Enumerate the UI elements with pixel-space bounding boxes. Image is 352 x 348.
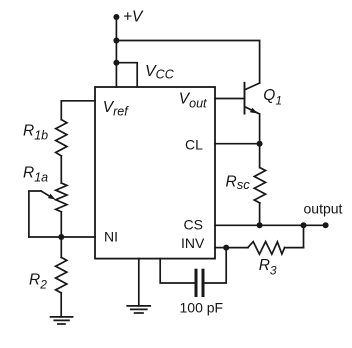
svg-text:CS: CS <box>184 217 203 233</box>
resistor R1a (potentiometer) <box>23 165 67 212</box>
wire Vout pin to Q1 base <box>215 98 245 100</box>
node CL/emitter junction <box>257 141 263 147</box>
resistor Rsc <box>226 144 266 226</box>
wire NI pin <box>29 236 95 238</box>
ground below IC <box>127 306 150 313</box>
wire R1a wiper arm <box>29 191 56 237</box>
wire Vref pin to divider <box>61 101 95 120</box>
svg-text:100 pF: 100 pF <box>180 300 224 316</box>
node R3 top junction <box>301 222 307 228</box>
wire CL pin <box>215 143 260 145</box>
svg-text:CL: CL <box>185 136 203 152</box>
node INV junction <box>223 245 229 251</box>
wire R3 right leg up to CS line <box>303 225 305 247</box>
node junction at Vcc stub <box>113 60 119 66</box>
svg-text:NI: NI <box>104 229 118 245</box>
svg-text:output: output <box>304 201 343 217</box>
wire CS pin to output <box>215 224 326 226</box>
node output terminal <box>304 201 343 229</box>
svg-text:+V: +V <box>123 9 144 26</box>
node Rsc/CS junction <box>257 222 263 228</box>
wire R1a bottom to node <box>60 212 62 237</box>
node divider junction <box>58 234 64 240</box>
resistor R3 <box>226 242 303 278</box>
wire Vcc pin stub <box>116 63 137 87</box>
wire IC ground pin <box>138 259 140 306</box>
node junction on +V rail <box>113 38 119 44</box>
wire IC comp pin down to capacitor <box>160 259 194 283</box>
svg-text:Rsc: Rsc <box>226 173 251 191</box>
ground below R2 <box>51 293 73 324</box>
transistor Q1 <box>245 83 283 114</box>
resistor R1b <box>23 120 67 156</box>
wire INV node down to capacitor <box>205 248 227 283</box>
regulator IC U1 box <box>95 87 215 259</box>
wire top rail to Q1 collector <box>116 41 259 84</box>
wire +V vertical drop to IC top <box>115 17 117 87</box>
capacitor C1 100 pF <box>180 270 224 315</box>
wire Q1 emitter down to CL node <box>259 114 261 144</box>
node +V terminal <box>113 9 144 26</box>
svg-text:INV: INV <box>181 235 205 251</box>
wire between R1b and R1a <box>60 156 62 183</box>
wire INV pin <box>215 247 227 249</box>
resistor R2 <box>29 237 67 293</box>
